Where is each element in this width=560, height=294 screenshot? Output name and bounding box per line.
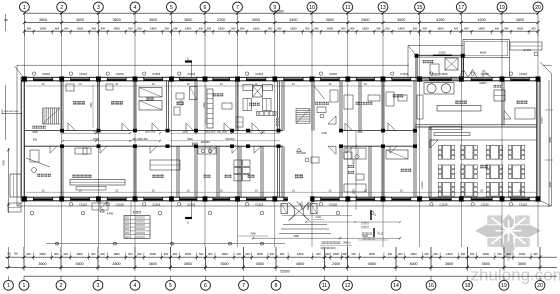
svg-text:14: 14 xyxy=(393,283,399,289)
svg-text:10: 10 xyxy=(292,82,295,86)
svg-text:3600: 3600 xyxy=(39,18,47,22)
svg-text:15: 15 xyxy=(439,188,442,192)
svg-text:900: 900 xyxy=(54,252,59,256)
wall windows xyxy=(33,77,529,201)
watermark compass logo xyxy=(474,214,542,263)
svg-text:900: 900 xyxy=(342,252,347,256)
corridor walls xyxy=(24,129,417,148)
svg-text:900: 900 xyxy=(314,26,319,30)
svg-text:3600: 3600 xyxy=(75,262,83,266)
svg-text:900: 900 xyxy=(277,26,282,30)
svg-text:4.000: 4.000 xyxy=(321,133,327,135)
svg-text:900: 900 xyxy=(199,252,204,256)
bottom grid axis bubbles xyxy=(4,276,545,290)
svg-text:15: 15 xyxy=(255,188,258,192)
top grid axis bubbles xyxy=(20,2,543,12)
svg-text:15: 15 xyxy=(364,188,367,192)
svg-text:1800: 1800 xyxy=(519,252,526,256)
svg-text:15: 15 xyxy=(187,188,190,192)
svg-text:900: 900 xyxy=(424,252,429,256)
svg-text:3600: 3600 xyxy=(518,262,526,266)
svg-text:900: 900 xyxy=(350,26,355,30)
section 1-1 flags xyxy=(185,57,192,225)
svg-text:900: 900 xyxy=(137,26,142,30)
svg-text:15: 15 xyxy=(152,188,155,192)
svg-text:1: 1 xyxy=(374,213,376,217)
svg-text:4000: 4000 xyxy=(480,51,487,55)
svg-text:900: 900 xyxy=(173,252,178,256)
svg-text:900: 900 xyxy=(497,252,502,256)
room doors xyxy=(50,111,511,155)
svg-text:6: 6 xyxy=(204,283,207,289)
notes bottom xyxy=(238,233,352,250)
svg-text:10: 10 xyxy=(42,82,45,86)
svg-text:1800: 1800 xyxy=(410,252,417,256)
svg-text:3600: 3600 xyxy=(113,18,121,22)
legend table xyxy=(124,201,150,239)
top dimension lines xyxy=(23,9,540,35)
svg-text:W1527: W1527 xyxy=(542,116,544,124)
svg-text:1800: 1800 xyxy=(218,26,225,30)
svg-text:1: 1 xyxy=(7,283,10,289)
svg-text:8: 8 xyxy=(275,283,278,289)
svg-text:1800: 1800 xyxy=(483,252,490,256)
svg-text:900: 900 xyxy=(506,252,511,256)
svg-text:C1818: C1818 xyxy=(400,72,408,76)
stair entrance hall xyxy=(296,109,310,124)
svg-text:1800: 1800 xyxy=(185,252,192,256)
svg-text:4.480: 4.480 xyxy=(107,212,114,216)
hall and archive room furniture xyxy=(305,152,364,180)
svg-text:900 1800: 900 1800 xyxy=(217,131,228,134)
svg-text:1800: 1800 xyxy=(257,252,264,256)
svg-text:1800: 1800 xyxy=(76,252,83,256)
svg-text:4800: 4800 xyxy=(368,262,376,266)
svg-text:900: 900 xyxy=(388,252,393,256)
svg-text:1800: 1800 xyxy=(446,252,453,256)
svg-text:1500: 1500 xyxy=(353,189,356,195)
svg-text:1800: 1800 xyxy=(150,252,157,256)
svg-text:3: 3 xyxy=(97,283,100,289)
notes near porch xyxy=(358,181,424,240)
svg-text:C1818: C1818 xyxy=(79,72,87,76)
svg-text:3600: 3600 xyxy=(482,262,490,266)
svg-text:15: 15 xyxy=(417,5,423,11)
svg-text:3600: 3600 xyxy=(516,18,524,22)
service rooms furniture xyxy=(150,148,250,181)
svg-text:300 300: 300 300 xyxy=(200,141,210,144)
svg-text:1800: 1800 xyxy=(185,26,192,30)
svg-text:1200: 1200 xyxy=(259,131,265,134)
entrance doors xyxy=(92,201,317,210)
svg-text:900: 900 xyxy=(464,26,469,30)
svg-text:11: 11 xyxy=(345,5,350,11)
svg-text:900: 900 xyxy=(533,252,538,256)
svg-text:900: 900 xyxy=(470,252,475,256)
svg-text:3600: 3600 xyxy=(38,262,46,266)
svg-text:10: 10 xyxy=(309,5,315,11)
bottom dimension lines xyxy=(5,247,557,276)
svg-text:3600: 3600 xyxy=(409,262,417,266)
svg-text:1800: 1800 xyxy=(113,252,120,256)
svg-text:C1518: C1518 xyxy=(439,203,447,207)
svg-text:3400: 3400 xyxy=(289,18,297,22)
svg-text:900: 900 xyxy=(92,26,97,30)
svg-text:C1518: C1518 xyxy=(255,203,263,207)
svg-text:900: 900 xyxy=(268,26,273,30)
svg-text:1800: 1800 xyxy=(253,26,260,30)
svg-text:10: 10 xyxy=(115,82,118,86)
svg-text:2400: 2400 xyxy=(332,262,340,266)
svg-text:1: 1 xyxy=(377,231,379,235)
svg-text:20: 20 xyxy=(537,283,543,289)
svg-text:900: 900 xyxy=(199,26,204,30)
svg-text:10: 10 xyxy=(79,82,82,86)
svg-text:3600: 3600 xyxy=(149,262,157,266)
svg-text:250: 250 xyxy=(4,19,9,22)
boiler room block xyxy=(408,46,465,80)
svg-text:1800: 1800 xyxy=(362,26,369,30)
svg-text:M1527: M1527 xyxy=(479,82,487,85)
svg-text:900: 900 xyxy=(413,26,418,30)
svg-text:3600: 3600 xyxy=(149,18,157,22)
svg-text:900: 900 xyxy=(137,252,142,256)
building outer walls xyxy=(21,77,540,201)
svg-text:1: 1 xyxy=(23,283,26,289)
svg-text:M1024: M1024 xyxy=(422,181,424,188)
svg-text:1000 300: 1000 300 xyxy=(145,131,156,134)
svg-text:3600: 3600 xyxy=(184,18,192,22)
svg-text:1: 1 xyxy=(23,5,26,11)
svg-text:5: 5 xyxy=(170,5,173,11)
svg-text:C1518: C1518 xyxy=(116,203,124,207)
svg-text:900: 900 xyxy=(26,252,31,256)
svg-text:18: 18 xyxy=(465,283,471,289)
svg-text:900: 900 xyxy=(398,252,403,256)
svg-text:19: 19 xyxy=(499,5,505,11)
svg-text:19: 19 xyxy=(501,283,507,289)
svg-text:15: 15 xyxy=(79,188,82,192)
svg-text:900: 900 xyxy=(495,26,500,30)
svg-text:15: 15 xyxy=(115,188,118,192)
svg-text:#K 649: #K 649 xyxy=(523,50,531,52)
svg-text:300 1500 300: 300 1500 300 xyxy=(132,138,148,141)
svg-text:15: 15 xyxy=(220,188,223,192)
entrance porch steps xyxy=(252,197,401,240)
svg-text:1800: 1800 xyxy=(40,26,47,30)
svg-text:900: 900 xyxy=(454,26,459,30)
svg-text:10: 10 xyxy=(364,82,367,86)
svg-text:6: 6 xyxy=(204,5,207,11)
svg-text:900: 900 xyxy=(245,252,250,256)
svg-text:900: 900 xyxy=(91,252,96,256)
svg-text:15: 15 xyxy=(328,188,331,192)
svg-text:900: 900 xyxy=(208,252,213,256)
svg-text:zhulong.com: zhulong.com xyxy=(471,265,560,284)
svg-text:C1518: C1518 xyxy=(519,203,527,207)
building eave outline xyxy=(15,62,552,206)
svg-text:10: 10 xyxy=(220,82,223,86)
svg-text:1800: 1800 xyxy=(221,252,228,256)
double door M1527 xyxy=(459,70,491,85)
svg-text:600 900: 600 900 xyxy=(226,138,235,141)
interior vertical dim xyxy=(353,130,358,210)
svg-text:7: 7 xyxy=(236,5,239,11)
svg-text:4: 4 xyxy=(134,5,137,11)
svg-text:4000: 4000 xyxy=(252,18,260,22)
svg-text:C1818: C1818 xyxy=(481,72,489,76)
window tags xyxy=(32,72,527,207)
svg-text:-0.02: -0.02 xyxy=(315,216,321,219)
interior sill lines xyxy=(26,82,536,192)
svg-text:900: 900 xyxy=(128,26,133,30)
stair left xyxy=(43,108,61,124)
left side vertical dimension xyxy=(2,14,23,213)
svg-text:1800: 1800 xyxy=(150,26,157,30)
svg-text:3300: 3300 xyxy=(91,102,93,108)
duty room furniture xyxy=(314,86,338,118)
svg-text:15: 15 xyxy=(42,188,45,192)
svg-text:900: 900 xyxy=(461,252,466,256)
dining tables xyxy=(430,140,537,196)
svg-text:900: 900 xyxy=(325,252,330,256)
svg-text:4200: 4200 xyxy=(478,18,486,22)
bookshelf xyxy=(207,89,232,128)
svg-text:1: 1 xyxy=(187,57,189,61)
kitchen equipment xyxy=(417,83,535,136)
svg-text:2: 2 xyxy=(60,283,63,289)
section flags near porch xyxy=(371,210,379,237)
svg-text:3000: 3000 xyxy=(187,138,193,141)
ward beds xyxy=(139,88,162,111)
svg-text:52500: 52500 xyxy=(280,269,289,273)
leader line with node circles xyxy=(46,242,285,245)
svg-text:3600: 3600 xyxy=(256,262,264,266)
svg-text:20: 20 xyxy=(535,5,541,11)
kitchen prep table xyxy=(8,84,125,212)
svg-text:900: 900 xyxy=(231,26,236,30)
svg-text:3: 3 xyxy=(97,5,100,11)
sill row circled tags xyxy=(30,211,374,215)
svg-text:7380: 7380 xyxy=(293,235,299,238)
svg-text:900: 900 xyxy=(101,26,106,30)
wc stalls and rest room bed xyxy=(344,148,408,192)
svg-text:C1815: C1815 xyxy=(438,52,446,55)
svg-text:4800: 4800 xyxy=(296,262,304,266)
svg-text:1800: 1800 xyxy=(369,252,376,256)
svg-text:13: 13 xyxy=(380,5,386,11)
svg-text:9502-1: 9502-1 xyxy=(343,241,351,244)
svg-text:900: 900 xyxy=(316,252,321,256)
svg-text:900: 900 xyxy=(165,26,170,30)
svg-text:900: 900 xyxy=(270,252,275,256)
svg-text:15: 15 xyxy=(400,188,403,192)
svg-text:15: 15 xyxy=(292,188,295,192)
svg-text:3000: 3000 xyxy=(357,132,363,134)
svg-text:1500: 1500 xyxy=(182,131,188,134)
svg-text:7000: 7000 xyxy=(2,160,6,166)
svg-text:5: 5 xyxy=(169,283,172,289)
svg-text:9: 9 xyxy=(273,5,276,11)
svg-text:900: 900 xyxy=(433,252,438,256)
svg-text:10: 10 xyxy=(187,82,190,86)
svg-text:900: 900 xyxy=(100,252,105,256)
svg-text:10: 10 xyxy=(328,82,331,86)
svg-text:C1818: C1818 xyxy=(116,72,124,76)
svg-text:4200: 4200 xyxy=(436,18,444,22)
svg-text:C1818: C1818 xyxy=(439,72,447,76)
svg-text:1500: 1500 xyxy=(2,109,4,115)
room labels xyxy=(32,60,527,178)
svg-text:900: 900 xyxy=(240,26,245,30)
svg-text:1800: 1800 xyxy=(398,26,405,30)
toilet fixtures xyxy=(236,85,276,128)
svg-text:900: 900 xyxy=(128,252,133,256)
svg-text:C1818: C1818 xyxy=(329,72,337,76)
svg-text:900: 900 xyxy=(504,26,509,30)
svg-text:1:12: 1:12 xyxy=(379,233,384,235)
svg-text:C1818: C1818 xyxy=(42,72,50,76)
svg-text:900: 900 xyxy=(64,26,69,30)
svg-text:12: 12 xyxy=(345,283,351,289)
svg-text:2: 2 xyxy=(60,5,63,11)
svg-text:C1518: C1518 xyxy=(481,203,489,207)
svg-text:1800: 1800 xyxy=(290,26,297,30)
svg-text:3600: 3600 xyxy=(397,18,405,22)
svg-text:1: 1 xyxy=(187,221,189,225)
svg-text:10: 10 xyxy=(152,82,155,86)
svg-text:900: 900 xyxy=(63,252,68,256)
svg-text:17: 17 xyxy=(458,5,464,11)
svg-text:2700: 2700 xyxy=(204,102,206,108)
interior partition walls xyxy=(61,81,537,197)
svg-text:C1518: C1518 xyxy=(329,203,337,207)
svg-text:1500: 1500 xyxy=(32,131,38,134)
svg-text:1800: 1800 xyxy=(437,26,444,30)
svg-text:900: 900 xyxy=(531,26,536,30)
svg-text:1800: 1800 xyxy=(297,252,304,256)
svg-text:7380: 7380 xyxy=(250,233,256,236)
svg-text:C1518: C1518 xyxy=(79,203,87,207)
open yard block xyxy=(463,40,510,78)
svg-text:900: 900 xyxy=(376,26,381,30)
svg-text:3600: 3600 xyxy=(76,18,84,22)
svg-text:C1818: C1818 xyxy=(255,72,263,76)
svg-text:900: 900 xyxy=(351,252,356,256)
svg-text:2600: 2600 xyxy=(361,18,369,22)
level mark 4.480 xyxy=(100,209,114,216)
svg-text:900: 900 xyxy=(341,26,346,30)
svg-text:7: 7 xyxy=(242,283,245,289)
svg-text:1800: 1800 xyxy=(39,252,46,256)
svg-text:3000: 3000 xyxy=(353,159,356,165)
svg-text:C1818: C1818 xyxy=(152,72,160,76)
svg-text:3600: 3600 xyxy=(445,262,453,266)
svg-text:3600: 3600 xyxy=(220,262,228,266)
svg-text:900: 900 xyxy=(385,26,390,30)
svg-text:1800: 1800 xyxy=(333,252,340,256)
svg-text:C1818: C1818 xyxy=(519,72,527,76)
svg-text:3600: 3600 xyxy=(184,262,192,266)
svg-text:900: 900 xyxy=(207,26,212,30)
svg-text:900: 900 xyxy=(305,26,310,30)
svg-text:3800: 3800 xyxy=(326,18,334,22)
svg-text:900: 900 xyxy=(27,26,32,30)
svg-text:900: 900 xyxy=(237,252,242,256)
svg-text:1800: 1800 xyxy=(113,26,120,30)
svg-text:1800: 1800 xyxy=(327,26,334,30)
svg-text:4: 4 xyxy=(134,283,137,289)
flat annex top right xyxy=(510,42,542,50)
svg-text:15: 15 xyxy=(480,188,483,192)
corridor dimension text xyxy=(32,130,363,145)
svg-text:900: 900 xyxy=(55,26,60,30)
svg-text:900: 900 xyxy=(280,252,285,256)
svg-text:3600: 3600 xyxy=(112,262,120,266)
svg-text:900: 900 xyxy=(33,139,38,142)
svg-text:C1518: C1518 xyxy=(152,203,160,207)
svg-text:900: 900 xyxy=(164,252,169,256)
right side vertical dimension xyxy=(523,50,553,207)
svg-text:1800: 1800 xyxy=(478,26,485,30)
svg-text:11: 11 xyxy=(322,283,327,289)
clinic furniture xyxy=(174,87,197,116)
svg-text:900: 900 xyxy=(173,26,178,30)
wall columns xyxy=(22,77,540,202)
svg-text:2200: 2200 xyxy=(217,18,225,22)
svg-text:1800: 1800 xyxy=(77,26,84,30)
svg-text:1800: 1800 xyxy=(517,26,524,30)
svg-text:16: 16 xyxy=(428,283,434,289)
staff rest furniture xyxy=(344,92,407,109)
svg-text:900: 900 xyxy=(423,26,428,30)
